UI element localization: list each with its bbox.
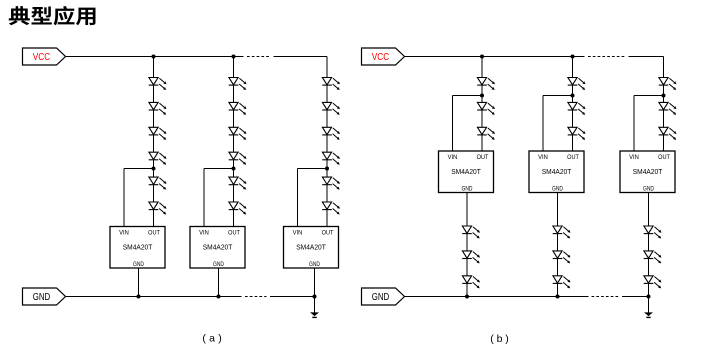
svg-text:VIN: VIN: [538, 154, 548, 161]
wire: Ub1 GND pin / lower LED string wire: [466, 193, 468, 297]
svg-text:SM4A20T: SM4A20T: [451, 167, 481, 176]
junction: VIN tap on column b3: [662, 94, 666, 98]
junction: VCC rail to column b1: [480, 55, 484, 59]
LED Da2-6: [229, 202, 245, 213]
LED Da3-3: [322, 127, 338, 138]
svg-text:VIN: VIN: [448, 154, 458, 161]
junction: ground rail end (a): [313, 295, 317, 299]
LED Da3-2: [322, 102, 338, 113]
svg-text:(b): (b): [490, 333, 509, 345]
wire: Ub2 GND pin / lower LED string wire: [557, 193, 559, 297]
junction: VIN tap on column b1: [480, 94, 484, 98]
junction: VIN tap on column a3: [325, 167, 329, 171]
GND power flag (b): [362, 288, 405, 305]
LED Db3-5: [644, 251, 660, 262]
wire: VIN tap column b1: [453, 95, 483, 97]
junction: lower LED string b1 on rail: [465, 295, 469, 299]
LED Db3-6: [644, 276, 660, 287]
svg-text:OUT: OUT: [477, 154, 489, 161]
svg-text:VIN: VIN: [293, 229, 303, 236]
svg-text:OUT: OUT: [228, 229, 240, 236]
junction: Ua2 GND on rail: [217, 295, 221, 299]
LED Db1-6: [462, 276, 478, 287]
regulator Ua3 body: [284, 227, 339, 269]
svg-text:GND: GND: [33, 292, 51, 303]
junction: Ua1 GND on rail: [137, 295, 141, 299]
LED Da2-2: [229, 102, 245, 113]
LED string column a3 vertical wire: [326, 57, 328, 227]
VCC power flag (b): [362, 48, 405, 65]
LED Da2-4: [229, 152, 245, 163]
GND power flag (a): [23, 288, 66, 305]
svg-text:SM4A20T: SM4A20T: [542, 167, 572, 176]
LED string column b3 upper vertical wire: [663, 57, 665, 152]
LED Db1-2: [477, 102, 493, 113]
svg-text:VIN: VIN: [119, 229, 129, 236]
junction: VIN tap on column b2: [571, 94, 575, 98]
LED Db1-5: [462, 251, 478, 262]
wire: Ua2 GND pin to ground rail: [218, 268, 220, 297]
svg-text:OUT: OUT: [567, 154, 579, 161]
regulator Ub1 body: [439, 151, 494, 193]
svg-text:VIN: VIN: [629, 154, 639, 161]
junction: VCC rail to column a1: [152, 55, 156, 59]
regulator Ua1 body: [110, 227, 165, 269]
junction: ground rail end (b): [647, 295, 651, 299]
wire: Ub3 GND pin / lower LED string wire: [648, 193, 650, 297]
wire: GND rail (a) dashed segment: [245, 296, 267, 298]
wire: Ua3 GND pin to ground rail: [314, 268, 316, 297]
junction: VIN tap on column a2: [232, 167, 236, 171]
svg-text:GND: GND: [552, 185, 563, 192]
wire: VCC rail (b) solid segment: [405, 56, 585, 58]
regulator Ub2 body: [529, 151, 584, 193]
LED Da1-1: [149, 78, 165, 89]
wire: VCC rail (b) dashed segment: [588, 56, 625, 58]
junction: VCC rail to column b2: [571, 55, 575, 59]
wire: VCC rail (a) right segment: [274, 56, 328, 58]
LED Da1-5: [149, 177, 165, 188]
wire: VIN tap column a3: [298, 168, 328, 170]
svg-text:OUT: OUT: [658, 154, 670, 161]
LED string column b2 upper vertical wire: [572, 57, 574, 152]
LED Db2-3: [568, 127, 584, 138]
svg-text:GND: GND: [309, 261, 320, 268]
LED Da1-2: [149, 102, 165, 113]
svg-text:VCC: VCC: [372, 52, 390, 63]
svg-text:OUT: OUT: [322, 229, 334, 236]
VCC power flag (a): [23, 48, 66, 65]
ground symbol (b): [648, 297, 650, 313]
LED Db3-2: [659, 102, 675, 113]
LED Db1-4: [462, 226, 478, 237]
LED Db2-4: [553, 226, 569, 237]
svg-text:OUT: OUT: [148, 229, 160, 236]
regulator Ub3 body: [620, 151, 675, 193]
wire: VIN tap column a1: [124, 168, 154, 170]
svg-text:SM4A20T: SM4A20T: [123, 243, 153, 252]
LED Db2-2: [568, 102, 584, 113]
LED Db2-5: [553, 251, 569, 262]
LED Db1-3: [477, 127, 493, 138]
LED Da1-6: [149, 202, 165, 213]
wire: VIN tap column a2: [204, 168, 234, 170]
LED Db2-6: [553, 276, 569, 287]
LED Da3-5: [322, 177, 338, 188]
LED Db2-1: [568, 78, 584, 89]
LED Da3-6: [322, 202, 338, 213]
svg-text:GND: GND: [133, 261, 144, 268]
svg-text:GND: GND: [213, 261, 224, 268]
LED string column b1 upper vertical wire: [481, 57, 483, 152]
LED Da2-3: [229, 127, 245, 138]
svg-text:SM4A20T: SM4A20T: [203, 243, 233, 252]
LED Da3-1: [322, 78, 338, 89]
LED Db3-3: [659, 127, 675, 138]
LED Da1-3: [149, 127, 165, 138]
svg-text:VIN: VIN: [199, 229, 209, 236]
wire: GND rail (b) dashed segment: [592, 296, 620, 298]
wire: GND rail (b) right segment: [622, 296, 649, 298]
svg-text:GND: GND: [462, 185, 473, 192]
svg-text:SM4A20T: SM4A20T: [296, 243, 326, 252]
LED Da3-4: [322, 152, 338, 163]
LED Db1-1: [477, 78, 493, 89]
svg-text:GND: GND: [372, 292, 390, 303]
svg-text:GND: GND: [643, 185, 654, 192]
svg-text:VCC: VCC: [33, 52, 51, 63]
LED string column a1 vertical wire: [153, 57, 155, 227]
wire: VCC rail (b) right segment: [629, 56, 664, 58]
LED Da2-5: [229, 177, 245, 188]
wire: VIN tap column b3: [634, 95, 664, 97]
junction: lower LED string b2 on rail: [556, 295, 560, 299]
regulator Ua2 body: [190, 227, 245, 269]
LED string column a2 vertical wire: [233, 57, 235, 227]
wire: GND rail (a) solid segment: [66, 296, 242, 298]
ground symbol (a): [314, 297, 316, 313]
LED Da2-1: [229, 78, 245, 89]
junction: VIN tap on column a1: [152, 167, 156, 171]
LED Da1-4: [149, 152, 165, 163]
page title 典型应用 (Typical Applications): [9, 6, 30, 25]
svg-text:(a): (a): [202, 333, 221, 345]
junction: VCC rail to column a2: [232, 55, 236, 59]
LED Db3-1: [659, 78, 675, 89]
wire: VCC rail (a) dashed segment: [247, 56, 271, 58]
wire: GND rail (a) right segment: [270, 296, 315, 298]
wire: VIN tap column b2: [543, 95, 573, 97]
wire: VCC rail (a) solid segment: [66, 56, 244, 58]
svg-text:SM4A20T: SM4A20T: [633, 167, 663, 176]
LED Db3-4: [644, 226, 660, 237]
wire: GND rail (b) solid segment: [404, 296, 589, 298]
wire: Ua1 GND pin to ground rail: [138, 268, 140, 297]
